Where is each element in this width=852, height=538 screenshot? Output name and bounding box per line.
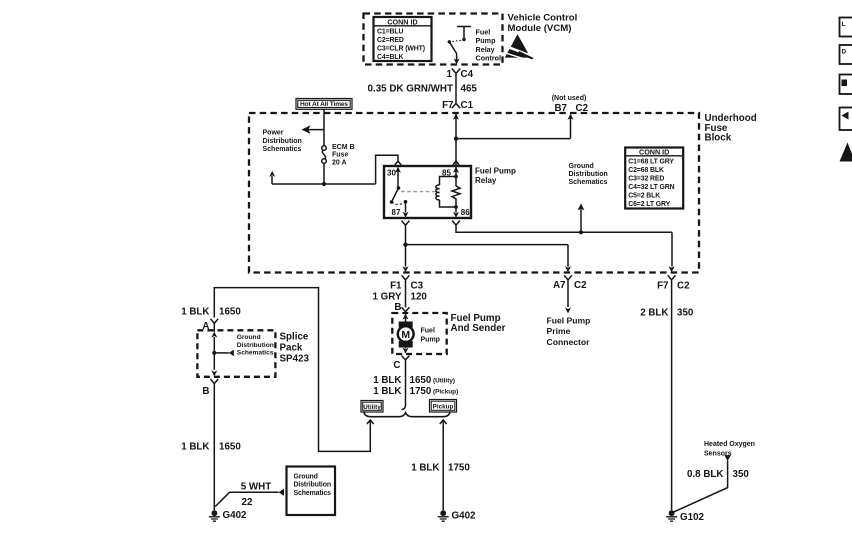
svg-text:C4: C4: [461, 69, 474, 80]
svg-text:C3: C3: [411, 281, 424, 292]
svg-text:Distribution: Distribution: [263, 138, 302, 145]
svg-text:Prime: Prime: [547, 326, 571, 336]
svg-text:G102: G102: [680, 512, 705, 523]
svg-text:C4=32 LT GRN: C4=32 LT GRN: [628, 184, 674, 191]
svg-text:C3=32 RED: C3=32 RED: [628, 175, 664, 182]
svg-text:22: 22: [242, 497, 253, 508]
svg-text:C2=68 BLK: C2=68 BLK: [628, 167, 664, 174]
svg-text:C1=BLU: C1=BLU: [377, 29, 404, 36]
svg-text:350: 350: [677, 308, 694, 319]
svg-text:Schematics: Schematics: [263, 146, 302, 153]
svg-text:F1: F1: [390, 281, 402, 292]
svg-text:G402: G402: [223, 510, 248, 521]
svg-text:C1: C1: [461, 100, 474, 111]
svg-text:Sensors: Sensors: [704, 451, 732, 458]
svg-text:Schematics: Schematics: [237, 349, 274, 356]
svg-text:Hot At All Times: Hot At All Times: [300, 101, 348, 108]
svg-text:C4=BLK: C4=BLK: [377, 54, 404, 61]
svg-text:C: C: [393, 360, 400, 371]
svg-text:1: 1: [447, 69, 453, 80]
svg-text:85: 85: [442, 169, 451, 178]
svg-text:Vehicle Control: Vehicle Control: [508, 12, 578, 23]
svg-text:87: 87: [392, 208, 401, 217]
svg-text:Connector: Connector: [547, 337, 591, 347]
svg-text:Control: Control: [476, 53, 502, 62]
svg-text:M: M: [401, 329, 410, 341]
svg-text:0.8 BLK: 0.8 BLK: [687, 469, 723, 480]
svg-text:1650: 1650: [410, 375, 432, 386]
svg-text:Ground: Ground: [569, 163, 594, 170]
svg-text:C3=CLR (WHT): C3=CLR (WHT): [377, 45, 425, 52]
svg-text:(Utility): (Utility): [433, 378, 455, 385]
svg-text:And Sender: And Sender: [451, 323, 506, 334]
svg-text:C1=68 LT GRY: C1=68 LT GRY: [628, 158, 674, 165]
svg-text:Ground: Ground: [294, 473, 318, 480]
svg-text:C5=2 BLK: C5=2 BLK: [628, 192, 660, 199]
svg-text:Distribution: Distribution: [569, 171, 608, 178]
svg-text:1 BLK: 1 BLK: [411, 463, 439, 474]
svg-text:465: 465: [461, 84, 478, 95]
svg-text:(Pickup): (Pickup): [433, 389, 458, 396]
svg-text:Splice: Splice: [280, 332, 309, 343]
svg-text:Pump: Pump: [421, 337, 440, 344]
svg-text:ECM B: ECM B: [332, 144, 355, 151]
svg-text:120: 120: [411, 292, 428, 303]
svg-text:Module (VCM): Module (VCM): [508, 23, 572, 34]
svg-text:(Not used): (Not used): [552, 95, 587, 102]
svg-text:A: A: [202, 321, 209, 332]
svg-text:F7: F7: [657, 281, 669, 292]
svg-text:B7: B7: [554, 103, 567, 114]
svg-text:C2=RED: C2=RED: [377, 37, 404, 44]
svg-text:Fuel Pump: Fuel Pump: [547, 316, 591, 326]
svg-text:2 BLK: 2 BLK: [640, 308, 668, 319]
svg-text:1750: 1750: [410, 386, 432, 397]
svg-text:CONN ID: CONN ID: [639, 148, 669, 157]
svg-text:L: L: [842, 21, 846, 28]
svg-text:1750: 1750: [448, 463, 470, 474]
svg-text:C2: C2: [576, 103, 589, 114]
svg-text:D: D: [842, 49, 847, 56]
svg-text:Block: Block: [705, 132, 732, 143]
svg-text:5 WHT: 5 WHT: [241, 482, 271, 493]
svg-text:Ground: Ground: [237, 334, 261, 341]
svg-text:Power: Power: [263, 130, 284, 137]
svg-text:1 BLK: 1 BLK: [373, 386, 401, 397]
svg-text:Utility: Utility: [363, 404, 381, 411]
svg-text:B: B: [394, 302, 401, 313]
svg-text:Pack: Pack: [280, 343, 303, 354]
svg-text:SP423: SP423: [280, 354, 310, 365]
svg-text:F7: F7: [442, 100, 454, 111]
svg-text:0.35 DK GRN/WHT: 0.35 DK GRN/WHT: [368, 84, 453, 95]
svg-text:C6=2 LT GRY: C6=2 LT GRY: [628, 201, 670, 208]
svg-text:CONN ID: CONN ID: [387, 17, 417, 26]
svg-text:A7: A7: [553, 280, 566, 291]
svg-text:350: 350: [733, 469, 750, 480]
svg-text:C2: C2: [574, 280, 587, 291]
svg-text:Pickup: Pickup: [433, 404, 454, 411]
svg-text:Distribution: Distribution: [294, 482, 331, 489]
svg-text:86: 86: [461, 208, 470, 217]
svg-text:B: B: [202, 386, 209, 397]
svg-text:Schematics: Schematics: [569, 179, 608, 186]
svg-text:1650: 1650: [219, 307, 241, 318]
svg-text:Fuse: Fuse: [332, 152, 348, 159]
svg-text:Schematics: Schematics: [294, 490, 332, 497]
svg-text:1 BLK: 1 BLK: [181, 442, 209, 453]
svg-text:1650: 1650: [219, 442, 241, 453]
svg-text:Fuel Pump: Fuel Pump: [475, 167, 516, 176]
svg-text:Distribution: Distribution: [237, 342, 274, 349]
svg-text:Heated Oxygen: Heated Oxygen: [704, 441, 755, 448]
svg-text:30: 30: [387, 169, 396, 178]
svg-text:1 BLK: 1 BLK: [181, 307, 209, 318]
svg-text:Relay: Relay: [475, 176, 497, 185]
svg-text:C2: C2: [677, 281, 690, 292]
svg-text:1 BLK: 1 BLK: [373, 375, 401, 386]
svg-text:G402: G402: [452, 511, 477, 522]
svg-text:Fuel: Fuel: [421, 328, 435, 335]
svg-text:20 A: 20 A: [332, 159, 347, 166]
